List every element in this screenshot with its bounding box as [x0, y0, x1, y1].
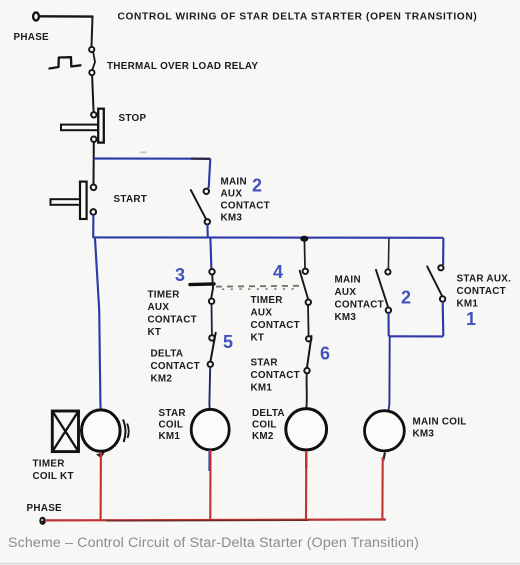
timer aux contact KT actuator bar (no.3) — [190, 282, 214, 286]
wire star aux bottom down — [442, 302, 445, 337]
main aux contact KM3 terminal top (no.2 left) — [204, 189, 209, 194]
wire aux contact bottom to bus — [206, 225, 209, 238]
delta contact KM2 terminal top (no.5) — [209, 335, 214, 340]
svg-text:START: START — [114, 194, 148, 205]
wire corner down to overload contact — [92, 17, 93, 47]
svg-text:DELTA: DELTA — [252, 408, 285, 419]
number 3 — [175, 265, 185, 285]
timer coil bottom terminal mark — [96, 452, 106, 459]
number 1 — [466, 309, 476, 329]
wire red timer coil to phase line — [100, 453, 102, 520]
svg-text:COIL KT: COIL KT — [33, 471, 74, 482]
svg-text:KM1: KM1 — [251, 383, 273, 394]
main coil bottom terminal mark — [383, 453, 385, 461]
phase bus dark overlay — [106, 519, 308, 522]
wire red main coil to phase line — [381, 457, 383, 519]
number 4 — [273, 262, 283, 282]
main aux contact KM3 blade (no.2 left) — [191, 190, 207, 221]
start button terminal bottom — [91, 209, 97, 215]
timer aux contact KT blade (no.4) — [300, 271, 309, 300]
delta contact KM2 terminal bottom (no.5) — [208, 362, 213, 367]
wire bus to timer aux contact KT (no.4) — [303, 239, 306, 268]
timer coil KT circle — [82, 410, 121, 451]
svg-text:TIMER: TIMER — [33, 459, 65, 470]
wire joining horizontal to main aux bottom — [389, 335, 444, 337]
bottom border — [0, 563, 520, 565]
wire down to main coil KM3 — [389, 336, 390, 410]
mechanical linkage dashed line — [216, 286, 302, 290]
label START — [114, 194, 148, 205]
start button plunger — [51, 199, 81, 205]
wire star coil to phase line (blue sliver) — [208, 450, 210, 471]
star contact KM1 terminal top (no.6) — [306, 336, 311, 341]
svg-text:KM2: KM2 — [151, 374, 173, 385]
thermal overload relay heater symbol — [50, 57, 81, 68]
svg-text:4: 4 — [273, 262, 283, 282]
svg-text:AUX: AUX — [148, 302, 170, 313]
overload contact blade — [92, 52, 95, 70]
svg-text:CONTACT: CONTACT — [251, 320, 301, 331]
svg-text:2: 2 — [252, 176, 262, 196]
svg-text:CONTACT: CONTACT — [151, 361, 201, 372]
number 2 (right) — [401, 288, 411, 308]
stop button terminal top — [91, 112, 96, 117]
svg-text:THERMAL OVER LOAD RELAY: THERMAL OVER LOAD RELAY — [107, 61, 258, 72]
star coil KM1 circle — [191, 409, 229, 450]
main aux contact KM3 blade (right no.2) — [376, 270, 388, 308]
svg-text:MAIN: MAIN — [335, 275, 361, 286]
svg-text:STOP: STOP — [119, 113, 147, 124]
phase terminal (top) — [33, 13, 39, 21]
main aux contact KM3 terminal top (right no.2) — [385, 269, 390, 274]
svg-text:KM1: KM1 — [457, 299, 479, 310]
svg-text:KM1: KM1 — [159, 431, 181, 442]
label DELTA CONTACT KM2 — [151, 349, 201, 385]
svg-text:DELTA: DELTA — [151, 349, 184, 360]
svg-text:CONTROL WIRING OF STAR DELTA S: CONTROL WIRING OF STAR DELTA STARTER (OP… — [118, 12, 478, 23]
number 5 — [223, 332, 233, 352]
wire left vertical to timer coil — [95, 239, 101, 410]
wire KT to star contact KM1 — [307, 305, 310, 336]
stop button plate — [98, 109, 104, 143]
wire bus to main aux contact KM3 (right) — [387, 239, 390, 270]
label PHASE (bottom) — [27, 503, 63, 514]
svg-text:1: 1 — [466, 309, 476, 329]
svg-text:STAR: STAR — [159, 408, 186, 419]
label MAIN AUX CONTACT KM3 (right) — [335, 275, 385, 324]
timer aux contact KT terminal bottom (no.4) — [306, 300, 311, 305]
svg-text:TIMER: TIMER — [148, 290, 180, 301]
svg-text:MAIN: MAIN — [221, 177, 247, 188]
timer aux contact KT terminal top (no.4) — [303, 269, 308, 274]
timer aux contact KT blade (no.3) — [211, 275, 213, 299]
svg-text:AUX: AUX — [335, 287, 357, 298]
wire red star coil to phase line — [209, 450, 211, 520]
star contact KM1 terminal bottom (no.6) — [304, 368, 309, 373]
wire KT contact to delta contact — [211, 304, 213, 335]
start button plate — [80, 182, 87, 219]
svg-text:CONTACT: CONTACT — [148, 315, 198, 326]
svg-text:KM3: KM3 — [413, 429, 435, 440]
phase bus wire red (bottom) — [45, 518, 386, 521]
label TIMER COIL KT — [33, 459, 74, 483]
title — [118, 12, 478, 23]
svg-text:AUX: AUX — [251, 308, 273, 319]
svg-text:MAIN COIL: MAIN COIL — [413, 417, 467, 428]
stop button plunger — [61, 125, 98, 131]
label STAR AUX. CONTACT KM1 — [457, 274, 512, 310]
svg-text:KT: KT — [251, 333, 265, 344]
label TIMER AUX CONTACT KT (middle) — [251, 295, 301, 344]
svg-text:KT: KT — [148, 327, 162, 338]
number 2 (left) — [252, 176, 262, 196]
wire main aux bottom to joining point — [387, 313, 389, 336]
wire blue top horizontal (start bypass) — [94, 157, 211, 159]
svg-text:KM2: KM2 — [252, 431, 274, 442]
wire blue top horizontal dark end overlay — [191, 158, 210, 160]
wire phase to corner — [40, 15, 93, 18]
main aux contact KM3 terminal bottom (no.2 left) — [205, 219, 210, 224]
wire blue down to aux contact KM3 — [209, 159, 211, 189]
wire overload to stop — [92, 75, 94, 112]
label MAIN COIL KM3 — [413, 417, 467, 440]
timer aux contact KT terminal top (no.3) — [209, 269, 214, 274]
delta coil KM2 circle — [286, 409, 327, 450]
label STAR CONTACT KM1 — [251, 358, 301, 394]
svg-text:STAR: STAR — [251, 358, 278, 369]
wire bus to timer aux contact KT — [210, 239, 211, 269]
svg-text:TIMER: TIMER — [251, 295, 283, 306]
svg-text:Scheme – Control Circuit of St: Scheme – Control Circuit of Star-Delta S… — [8, 535, 419, 551]
main aux contact KM3 terminal bottom (right no.2) — [386, 308, 391, 313]
star aux contact KM1 terminal top (no.1) — [438, 265, 443, 270]
svg-text:6: 6 — [320, 344, 330, 364]
delta contact KM2 blade (no.5) — [210, 333, 215, 362]
svg-text:5: 5 — [223, 332, 233, 352]
junction node on bus — [300, 236, 308, 242]
timer coil hand marks — [123, 420, 129, 443]
star contact KM1 blade (no.6) — [307, 336, 312, 368]
svg-text:KM3: KM3 — [221, 213, 243, 224]
star aux contact KM1 blade (no.1) — [427, 266, 442, 296]
faint smudge on top line — [140, 151, 147, 153]
caption — [8, 535, 419, 551]
number 6 — [320, 344, 330, 364]
stop button terminal bottom — [91, 137, 96, 142]
svg-text:CONTACT: CONTACT — [251, 370, 301, 381]
wire delta contact to star coil — [208, 367, 211, 409]
wire delta coil dark top segment — [305, 450, 307, 468]
svg-text:CONTACT: CONTACT — [221, 201, 271, 212]
svg-text:AUX: AUX — [221, 189, 243, 200]
svg-text:CONTACT: CONTACT — [335, 300, 385, 311]
svg-text:3: 3 — [175, 265, 185, 285]
star aux contact KM1 terminal bottom (no.1) — [440, 296, 445, 301]
phase terminal (bottom) — [39, 517, 46, 525]
main coil KM3 circle — [365, 411, 405, 451]
start button terminal top — [91, 185, 97, 191]
svg-text:COIL: COIL — [252, 420, 277, 431]
wire start bottom to bus — [92, 215, 94, 238]
wire red delta coil to phase line — [305, 451, 307, 519]
svg-text:CONTACT: CONTACT — [457, 286, 507, 297]
svg-text:STAR AUX.: STAR AUX. — [457, 274, 512, 285]
label TIMER AUX CONTACT KT (left) — [148, 290, 198, 339]
label STAR COIL KM1 — [159, 408, 186, 442]
wire stop to start — [93, 142, 95, 185]
timer aux contact KT terminal bottom (no.3) — [209, 299, 214, 304]
svg-text:2: 2 — [401, 288, 411, 308]
label MAIN AUX CONTACT KM3 (left) — [221, 177, 271, 224]
timer coil KT box symbol — [52, 411, 78, 452]
wire bus to star aux contact KM1 — [442, 238, 444, 265]
label THERMAL OVER LOAD RELAY — [107, 61, 258, 72]
overload contact terminal bottom — [89, 70, 94, 75]
svg-text:PHASE: PHASE — [14, 32, 50, 43]
label STOP — [119, 113, 147, 124]
svg-text:COIL: COIL — [159, 420, 184, 431]
label DELTA COIL KM2 — [252, 408, 285, 442]
bus wire horizontal — [93, 236, 444, 239]
label PHASE (top) — [14, 32, 50, 43]
svg-text:KM3: KM3 — [335, 312, 357, 323]
svg-text:PHASE: PHASE — [27, 503, 63, 514]
wire star contact to delta coil — [305, 373, 308, 409]
overload contact terminal top — [89, 47, 94, 52]
